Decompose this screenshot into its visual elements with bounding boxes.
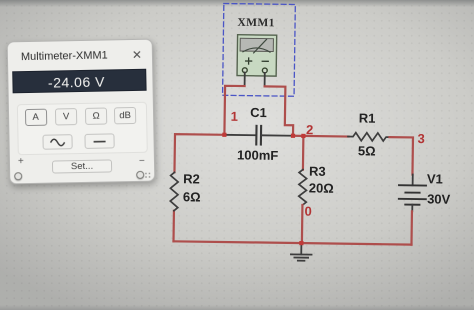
multimeter icon plus sign	[246, 58, 252, 64]
panel display -24.06 V	[12, 69, 146, 94]
button sine	[42, 134, 72, 150]
panel title	[21, 49, 108, 63]
button V	[55, 108, 77, 125]
button A	[24, 108, 46, 125]
node 0 junction dot	[299, 241, 303, 245]
panel terminal -	[136, 171, 144, 179]
resistor R1 zigzag	[348, 133, 390, 142]
node 1 junction dot	[222, 133, 226, 137]
panel plus sign	[18, 156, 24, 167]
multimeter icon needle	[254, 39, 267, 53]
button Ohm	[85, 107, 107, 124]
capacitor C1 left lead	[224, 134, 255, 136]
wire XMM1 - to node 2	[264, 86, 294, 135]
wire R2 bottom to bottom rail	[172, 211, 175, 242]
multimeter icon gauge arc	[243, 48, 270, 52]
svg-text:2: 2	[306, 122, 313, 137]
resistor R3 zigzag	[299, 170, 307, 206]
multimeter icon body U=XMM1	[237, 35, 277, 76]
wire bottom rail	[174, 241, 412, 244]
wire node 2 down to R3	[302, 136, 305, 170]
node 2 junction dot b	[301, 134, 305, 138]
svg-text:R3: R3	[309, 164, 326, 179]
panel button group	[17, 102, 148, 155]
multimeter panel window	[7, 39, 156, 185]
svg-text:XMM1: XMM1	[237, 17, 275, 30]
svg-text:30V: 30V	[427, 191, 451, 206]
button Set	[52, 159, 112, 173]
svg-text:0: 0	[304, 204, 311, 219]
ground stub	[300, 243, 302, 254]
wire R3 to bottom rail node 0	[301, 205, 304, 243]
multimeter icon terminal +	[242, 68, 247, 73]
node 2 junction dot a	[291, 134, 295, 138]
lead from XMM1 - terminal	[264, 73, 266, 86]
svg-text:20Ω: 20Ω	[309, 180, 334, 195]
multimeter icon terminal -	[262, 68, 267, 73]
battery V1 top stub	[412, 175, 414, 186]
svg-text:1: 1	[231, 109, 238, 124]
multimeter icon screen	[240, 38, 273, 51]
svg-text:R1: R1	[359, 110, 376, 125]
battery V1 plates	[399, 185, 426, 205]
panel resize grip	[144, 172, 151, 179]
button dc dash	[84, 133, 114, 149]
lead from XMM1 + terminal	[244, 73, 246, 86]
panel minus sign	[139, 156, 145, 167]
multimeter icon minus sign	[262, 60, 268, 62]
svg-text:V1: V1	[427, 171, 443, 186]
svg-text:R2: R2	[183, 171, 200, 186]
panel close button	[132, 48, 142, 62]
button dB	[114, 106, 136, 123]
svg-text:6Ω: 6Ω	[183, 189, 201, 204]
wire XMM1 + to node 1	[224, 86, 244, 135]
wire top left: corner to node 1	[174, 134, 224, 173]
wire R1 to node 3 corner	[389, 137, 413, 174]
capacitor C1 plates	[256, 126, 261, 145]
battery V1 bottom stub	[411, 205, 413, 212]
svg-text:3: 3	[417, 131, 424, 146]
wire V1 to bottom rail	[410, 211, 413, 244]
resistor R2 zigzag	[170, 172, 178, 211]
svg-text:5Ω: 5Ω	[358, 143, 376, 158]
ground symbol	[291, 254, 312, 260]
capacitor C1 right lead	[262, 134, 293, 136]
svg-text:100mF: 100mF	[237, 147, 278, 163]
wire node 2 to R1	[293, 135, 348, 138]
svg-text:C1: C1	[250, 105, 267, 120]
panel terminal +	[14, 172, 22, 180]
instrument XMM1 selection box (dashed)	[223, 3, 296, 96]
